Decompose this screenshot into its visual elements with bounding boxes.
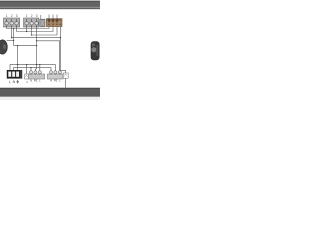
connector X1 xyxy=(4,18,20,27)
pin 2 of X1 xyxy=(11,19,13,27)
pin PE of X23 xyxy=(54,71,56,75)
terminal block X22 xyxy=(29,71,45,79)
wire X2 pin2 to node at x57 xyxy=(32,27,57,35)
pin L of X22 xyxy=(39,71,41,75)
svg-text:2: 2 xyxy=(31,14,33,18)
pump M1 xyxy=(0,40,7,54)
svg-text:3: 3 xyxy=(16,14,18,18)
wire branch to X23 pin3 xyxy=(37,41,60,71)
wire pump M1 to node B xyxy=(7,40,14,42)
connector X2 xyxy=(24,18,39,27)
terminal block X23 xyxy=(47,71,63,79)
wire drop to X22 pin3 xyxy=(39,65,41,71)
labels N PE L of X22 xyxy=(30,79,41,83)
junction key box drop xyxy=(26,64,27,65)
junction X22 pin3 drop xyxy=(39,64,40,65)
ground (PE symbol of X20) xyxy=(16,80,19,83)
junction branch tap xyxy=(36,40,37,41)
junction x36 on upper bus xyxy=(36,64,37,65)
wire X1 pin3 to X10 pin2 xyxy=(17,27,53,32)
junction node B pump tap xyxy=(13,40,14,41)
pin 3 of X1 xyxy=(16,19,18,27)
junction node A xyxy=(26,31,27,32)
relay module K1 xyxy=(40,15,45,27)
svg-text:1: 1 xyxy=(26,14,28,18)
pin N of X22 xyxy=(30,71,32,75)
wire drop to X22 pin1 xyxy=(30,68,32,71)
wire node B vertical xyxy=(13,29,15,46)
wire F1 to chassis xyxy=(65,78,67,87)
svg-text:1: 1 xyxy=(6,14,8,18)
svg-text:2: 2 xyxy=(11,14,13,18)
pin PE of X22 xyxy=(34,71,36,75)
svg-text:N: N xyxy=(30,79,32,83)
wire bus lower xyxy=(14,68,51,71)
pin labels 1 2 3 of connector X1 xyxy=(6,14,18,18)
pin 1 of X2 xyxy=(26,19,28,27)
labels N PE L of X23 xyxy=(50,79,61,83)
wire X1 pin2 to node at x60 xyxy=(12,27,61,38)
plug key box 4 xyxy=(25,74,29,84)
wire X1 pin1 to X10 pin1 xyxy=(7,27,49,29)
junction X1 pin2 corner xyxy=(11,37,12,38)
junction X22 pin1 drop xyxy=(30,67,31,68)
wire node B horizontal xyxy=(14,45,37,47)
fuse F1 xyxy=(63,73,68,88)
junction X2 pin2 corner xyxy=(31,34,32,35)
pin labels 1 2 3 of connector X2 xyxy=(26,14,38,18)
wire step down to X20 xyxy=(17,46,19,71)
svg-text:N: N xyxy=(50,79,52,83)
pin 2 of X2 xyxy=(31,19,33,27)
wire X10 pin4 to fuse F1 xyxy=(60,27,65,73)
junction step tap xyxy=(17,45,18,46)
svg-text:L: L xyxy=(9,80,11,84)
chassis rail (bottom bar) xyxy=(0,88,101,100)
svg-text:PE: PE xyxy=(34,79,38,83)
pin 3 of X2 xyxy=(36,19,38,27)
wire bus upper xyxy=(10,65,55,71)
junction node B top xyxy=(13,28,14,29)
pin L of X23 xyxy=(59,71,61,75)
gas valve Y1 xyxy=(91,42,99,60)
wire X10 pin3 stub xyxy=(56,27,58,35)
svg-text:3: 3 xyxy=(36,14,38,18)
wire X2 pin3 vertical xyxy=(36,27,38,69)
pin 1 of X1 xyxy=(6,19,8,27)
junction at x60 xyxy=(60,37,61,38)
labels L N of X20 xyxy=(9,80,16,84)
cable duct (top bar) xyxy=(0,1,101,9)
wire X2 pin1 stub to node A xyxy=(26,27,28,32)
edge connector X10 (brown) xyxy=(46,15,62,27)
mains terminal X20 xyxy=(7,70,22,78)
wire drop to plug key box xyxy=(26,65,28,74)
junction step on upper bus xyxy=(17,64,18,65)
svg-text:PE: PE xyxy=(54,79,58,83)
wire jog to X22 pin2 xyxy=(35,69,36,71)
junction node B cross xyxy=(36,45,37,46)
pin N of X23 xyxy=(50,71,52,75)
